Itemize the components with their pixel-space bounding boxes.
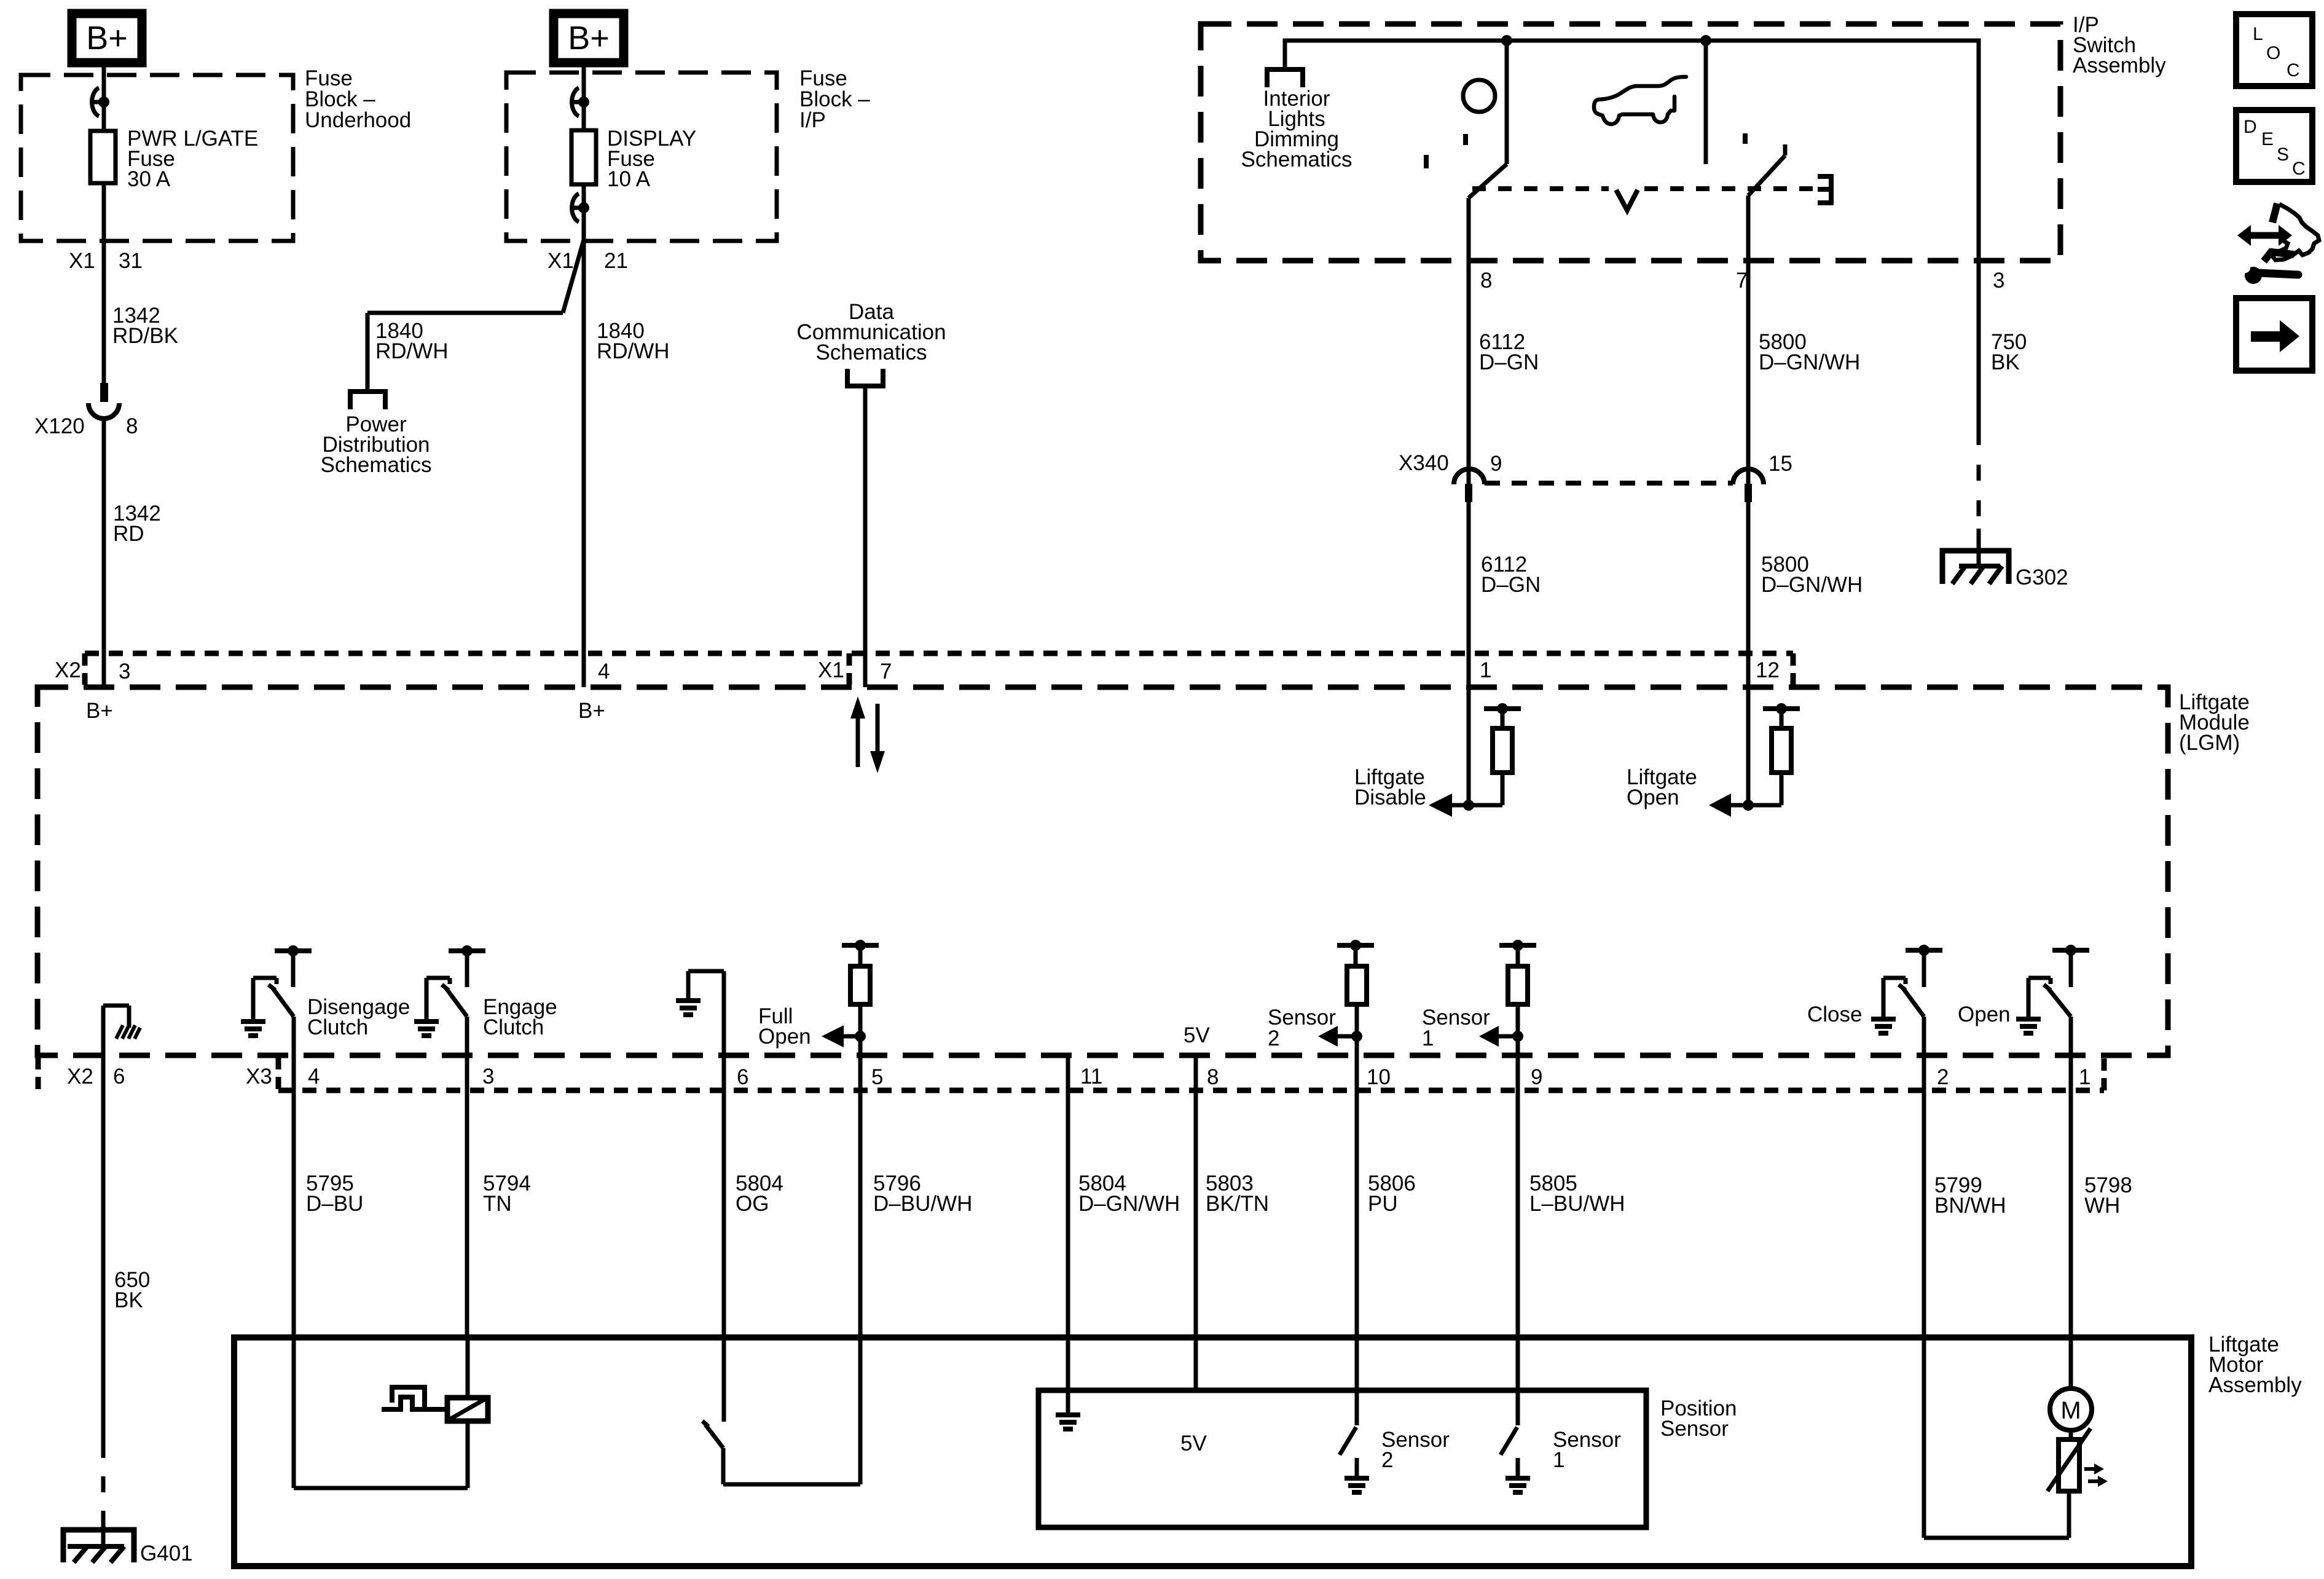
wire label 6112 D-GN (upper) [1479, 330, 1539, 374]
wire serial data to X1 pin 7 [863, 386, 868, 687]
svg-text:10: 10 [1367, 1065, 1391, 1089]
junction dot sensor 2 [1351, 1031, 1362, 1042]
internal rail stub (full open) [842, 940, 879, 966]
pin number 4 (LGM X2) [598, 660, 610, 683]
switch S1 liftgate disable (pin 8) [1469, 41, 1507, 261]
resistor lead full open [858, 1004, 863, 1036]
junction dot sensor 1 [1512, 1031, 1523, 1042]
label connector pin X1 21 [548, 249, 628, 273]
label G401 [140, 1542, 193, 1565]
label Interior Lights Dimming Schematics [1241, 87, 1352, 171]
svg-text:Schematics: Schematics [321, 453, 432, 477]
svg-text:E: E [2261, 129, 2274, 149]
label G302 [2016, 565, 2068, 589]
wire fuse output to X120 pin 8 [102, 183, 106, 383]
switch S2 liftgate open (pin 7) [1706, 41, 1785, 261]
car liftgate icon [1594, 77, 1686, 124]
wire sensor 1 to pin 9 [1516, 1036, 1520, 1055]
wire B+ to DISPLAY fuse [582, 63, 586, 130]
ground symbol (open switch) [2016, 1019, 2041, 1033]
svg-text:9: 9 [1490, 452, 1502, 476]
pin number 4 (X3) [308, 1065, 320, 1089]
svg-text:8: 8 [1207, 1065, 1219, 1089]
svg-text:D–BU: D–BU [306, 1192, 363, 1216]
svg-text:G401: G401 [140, 1542, 193, 1565]
label I/P Switch Assembly [2073, 13, 2166, 77]
svg-text:10 A: 10 A [607, 167, 651, 191]
svg-text:9: 9 [1531, 1065, 1542, 1089]
bus wire inside I/P switch assembly [1285, 41, 1979, 261]
momentary arrow V on link [1616, 190, 1638, 210]
wire 650 BK dashed segment [101, 1476, 106, 1530]
wire DISPLAY fuse to X2 pin 4 [582, 184, 586, 687]
svg-text:(LGM): (LGM) [2179, 731, 2240, 755]
label Sensor 1 (module) [1422, 1006, 1490, 1050]
wire label 1342 RD/BK [112, 304, 178, 348]
svg-text:RD/BK: RD/BK [112, 324, 178, 348]
motor thermal protector (PTC) [2047, 1428, 2108, 1491]
ground G302 [1942, 551, 2009, 584]
svg-text:TN: TN [483, 1192, 512, 1216]
svg-text:8: 8 [126, 414, 138, 438]
svg-text:Schematics: Schematics [1241, 148, 1352, 171]
power symbol B+ (battery feed, underhood) [72, 14, 142, 63]
svg-text:G302: G302 [2016, 565, 2068, 589]
svg-text:PU: PU [1368, 1192, 1398, 1216]
svg-text:I/P: I/P [799, 108, 826, 132]
resistor lead sensor 2 [1355, 1004, 1359, 1036]
button icon (circle) [1463, 80, 1495, 112]
dashed link of connector X340 [1485, 481, 1733, 486]
svg-text:X1: X1 [548, 249, 574, 273]
svg-text:L: L [2253, 24, 2263, 44]
label Liftgate Module (LGM) [2179, 690, 2250, 755]
svg-text:3: 3 [1993, 269, 2004, 293]
svg-text:6: 6 [113, 1065, 125, 1089]
svg-text:D–GN: D–GN [1481, 573, 1541, 597]
fuse clip bottom (DISPLAY fuse) [570, 194, 589, 222]
wire 5804 D-GN/WH [1066, 1055, 1070, 1337]
svg-text:Underhood: Underhood [305, 108, 411, 132]
svg-text:B+: B+ [578, 699, 605, 723]
signal arrow Liftgate Disable [1429, 793, 1469, 817]
resistor disable pull-up [1493, 728, 1512, 773]
svg-text:M: M [2060, 1397, 2081, 1424]
label X2 (top row) [55, 658, 81, 682]
mechanical link dotted line [1472, 186, 1814, 191]
liftgate motor assembly enclosure [234, 1337, 2191, 1566]
fuse F2 DISPLAY 10A element [571, 130, 596, 184]
svg-text:Assembly: Assembly [2208, 1373, 2302, 1397]
off-page pointer from Data Communication Schematics [847, 369, 883, 386]
power symbol B+ (battery feed, I/P) [554, 14, 624, 63]
liftgate module LGM dashed enclosure [37, 687, 2168, 1055]
internal chassis ground (pin X2-6) [103, 1006, 140, 1055]
label Data Communication Schematics [796, 300, 946, 364]
svg-text:5V: 5V [1180, 1431, 1207, 1455]
svg-text:21: 21 [604, 249, 628, 273]
off-page pointer to Interior Lights Dimming Schematics [1267, 69, 1303, 87]
svg-text:5V: 5V [1184, 1023, 1210, 1047]
detent symbol [1818, 176, 1831, 203]
pin number 8 (X3) [1207, 1065, 1219, 1089]
connector X3 end cap dotted [2102, 1058, 2107, 1090]
wire label 6112 D-GN (lower) [1481, 553, 1541, 597]
svg-text:X2: X2 [55, 658, 81, 682]
svg-text:2: 2 [1937, 1065, 1949, 1089]
service icon (wrench) [2240, 252, 2298, 284]
wire sensor 2 to pin 10 [1355, 1036, 1359, 1055]
label X340 [1399, 451, 1449, 475]
label Open (motor) [1958, 1002, 2011, 1026]
wire label 1840 RD/WH (branch) [375, 319, 449, 363]
wire 5794 TN [465, 1055, 469, 1337]
ground symbol (sensor 2) [1345, 1478, 1369, 1492]
ground symbol (position sensor) [1056, 1415, 1080, 1429]
pin number 6 (X3) [737, 1065, 748, 1089]
svg-text:D: D [2244, 117, 2257, 137]
svg-text:B+: B+ [86, 20, 128, 57]
svg-text:X340: X340 [1399, 451, 1449, 475]
wire 5804 OG [722, 1055, 726, 1337]
icon box DESC [2236, 110, 2312, 182]
connector X2 corner dotted [82, 653, 88, 685]
svg-text:RD/WH: RD/WH [597, 339, 670, 363]
position sensor switch 1 [1501, 1337, 1518, 1477]
fuse clip top (PWR L/GATE fuse) [90, 88, 109, 116]
resistor sensor 1 [1508, 966, 1528, 1004]
clutch mechanical symbol [382, 1387, 447, 1409]
svg-text:X1: X1 [69, 249, 95, 273]
svg-text:3: 3 [482, 1065, 494, 1089]
wire motor return loop [1924, 1337, 2069, 1538]
pin number 1 (X3) [2079, 1065, 2090, 1089]
pin number 7 (LGM X1) [880, 660, 892, 683]
signal arrow Sensor 2 [1318, 1026, 1357, 1047]
svg-text:8: 8 [1480, 269, 1492, 293]
icon box LOC [2236, 14, 2312, 86]
label X1 (top row) [818, 658, 844, 682]
wire label 5803 BK/TN [1206, 1171, 1269, 1216]
clutch coil loop [294, 1337, 468, 1488]
wire 5803 BK/TN [1194, 1055, 1198, 1337]
switch close (pin 2) [1883, 945, 1942, 1055]
pin number 10 (X3) [1367, 1065, 1391, 1089]
fuse block - underhood dashed enclosure [21, 75, 293, 241]
switch engage clutch [426, 945, 485, 1055]
node B+ (pin 4) [578, 699, 605, 723]
connector row dotted line X2/X1 [85, 651, 1793, 656]
switch disengage clutch [253, 945, 312, 1055]
svg-text:BK: BK [114, 1288, 143, 1312]
pin number 2 (X3) [1937, 1065, 1949, 1089]
svg-text:Disable: Disable [1354, 786, 1426, 809]
svg-text:Close: Close [1807, 1002, 1862, 1026]
label Sensor 1 (position sensor) [1553, 1428, 1621, 1472]
wire pin 3 to ground G302 (750 BK) [1977, 261, 1981, 430]
wire label 5799 BN/WH [1934, 1173, 2006, 1218]
signal arrow Liftgate Open [1709, 793, 1748, 817]
internal rail stub (disable pull-up) [1484, 703, 1521, 728]
label X3 [246, 1065, 272, 1089]
svg-text:6: 6 [737, 1065, 748, 1089]
svg-text:BK/TN: BK/TN [1206, 1192, 1269, 1216]
svg-text:X3: X3 [246, 1065, 272, 1089]
svg-text:D–GN: D–GN [1479, 350, 1539, 374]
label Sensor 2 (position sensor) [1381, 1428, 1450, 1472]
wire 650 BK from pin 6 [101, 1055, 106, 1458]
connector X1 corner dotted [847, 653, 852, 685]
wire label 1342 RD [113, 502, 161, 546]
svg-text:S: S [2277, 144, 2289, 165]
inline connector X340 pin 9 [1454, 469, 1485, 502]
svg-text:Assembly: Assembly [2073, 53, 2166, 77]
connector row dotted line X3 [278, 1088, 2104, 1093]
label Sensor 2 (module) [1268, 1006, 1336, 1050]
label X2 (bottom row) [67, 1065, 93, 1089]
connector X3 corner dotted [276, 1057, 281, 1090]
wire 6112 lower segment [1467, 468, 1471, 687]
pin number 8 (I/P X1) [1480, 269, 1492, 293]
svg-text:5: 5 [871, 1065, 883, 1089]
fuse block - I/P dashed enclosure [506, 73, 777, 241]
wire 5800 lower segment [1746, 468, 1751, 687]
svg-text:Clutch: Clutch [483, 1015, 544, 1039]
wire liftgate open input [1746, 653, 1751, 805]
wire B+ to fuse PWR L/GATE [102, 63, 106, 131]
label Close [1807, 1002, 1862, 1026]
wire 5795 D-BU [292, 1055, 296, 1337]
svg-text:Clutch: Clutch [307, 1015, 368, 1039]
label Position Sensor [1660, 1396, 1737, 1441]
svg-text:1: 1 [2079, 1065, 2090, 1089]
label 5V (position sensor) [1180, 1431, 1207, 1455]
pin number 15 (X340) [1769, 452, 1792, 476]
svg-text:1: 1 [1553, 1448, 1564, 1472]
svg-text:2: 2 [1268, 1026, 1279, 1050]
service icon (double arrow) [2237, 225, 2292, 246]
wire full open switch feed [858, 1036, 863, 1055]
pin number 3 (I/P X1) [1993, 269, 2004, 293]
motor M1 liftgate [2050, 1337, 2092, 1430]
label Fuse Block - I/P [799, 66, 870, 132]
internal rail stub (open pull-up) [1763, 703, 1800, 728]
label Fuse Block - Underhood [305, 66, 411, 132]
svg-text:12: 12 [1756, 658, 1780, 682]
mechanical link dashes (button to switch 1) [1426, 134, 1466, 168]
svg-text:BK: BK [1991, 350, 2020, 374]
I/P switch assembly dashed enclosure [1201, 24, 2060, 261]
junction dot switch 2 feed [1700, 35, 1711, 46]
mechanical link dash (switch 2) [1743, 133, 1748, 144]
wire label 750 BK [1991, 330, 2027, 374]
wire label 5805 L-BU/WH [1529, 1171, 1625, 1216]
svg-text:O: O [2266, 43, 2280, 63]
junction dot full open [855, 1031, 866, 1042]
wire label 5798 WH [2084, 1173, 2132, 1218]
svg-text:Open: Open [1627, 786, 1679, 809]
internal rail stub (sensor 2) [1337, 940, 1374, 966]
connector X1 end cap dotted [1791, 653, 1796, 685]
switch open (pin 1) [2028, 945, 2089, 1055]
internal ground hook (pin 6 wire 5804) [688, 971, 724, 1055]
wire label 1840 RD/WH (to LGM) [597, 319, 670, 363]
wire 5803 to position sensor 5V [1194, 1337, 1198, 1392]
wire 5805 L-BU/WH [1516, 1055, 1520, 1337]
ground symbol (disengage clutch) [241, 1022, 265, 1036]
label X120 8 [34, 414, 138, 438]
svg-text:RD/WH: RD/WH [375, 339, 449, 363]
fuse clip top (DISPLAY fuse) [570, 88, 589, 116]
junction dot liftgate open [1743, 800, 1754, 811]
label Liftgate Open [1627, 765, 1697, 809]
wire 5800 upper segment [1746, 261, 1751, 468]
position sensor enclosure [1038, 1390, 1646, 1527]
resistor lead sensor 1 [1516, 1004, 1520, 1036]
pin number 5 (X3) [871, 1065, 883, 1089]
resistor lead to junction (open) [1748, 773, 1781, 805]
node B+ (pin 3) [86, 699, 113, 723]
clutch solenoid [447, 1398, 488, 1421]
svg-text:X120: X120 [34, 414, 85, 438]
svg-text:RD: RD [113, 522, 144, 546]
ground symbol (full open return) [676, 1001, 701, 1015]
wire label 5800 D-GN/WH (lower) [1761, 553, 1863, 597]
wire label 5804 OG [736, 1171, 783, 1216]
wire 5806 PU [1355, 1055, 1359, 1337]
icon box arrow (next page) [2236, 298, 2312, 371]
wire 6112 upper segment [1467, 261, 1471, 468]
svg-text:7: 7 [880, 660, 892, 683]
svg-text:BN/WH: BN/WH [1934, 1194, 2006, 1218]
label 5V (module pin 8 rail) [1184, 1023, 1210, 1047]
wire 5796 D-BU/WH [858, 1055, 863, 1337]
svg-text:30 A: 30 A [127, 167, 171, 191]
service icon (outline) [2272, 203, 2319, 260]
wire 5799 BN/WH [1922, 1055, 1926, 1337]
svg-text:D–GN/WH: D–GN/WH [1078, 1192, 1180, 1216]
inline connector X340 pin 15 [1733, 469, 1764, 502]
svg-text:1: 1 [1480, 658, 1491, 682]
pin number 7 (I/P X1) [1736, 269, 1748, 293]
wire X120 to LGM X2 pin 3 [102, 419, 106, 687]
wire label 5794 TN [483, 1171, 531, 1216]
signal arrow Sensor 1 [1479, 1026, 1518, 1047]
resistor open pull-up [1772, 728, 1791, 773]
ground symbol (sensor 1) [1505, 1478, 1530, 1492]
svg-text:B+: B+ [86, 699, 113, 723]
label Liftgate Disable [1354, 765, 1426, 809]
svg-text:4: 4 [598, 660, 610, 683]
connector X2 bottom corner dotted [36, 1057, 41, 1090]
fuse F1 PWR L/GATE 30A element [90, 131, 116, 183]
label Power Distribution Schematics [321, 412, 432, 477]
pin number 6 (LGM X2 bottom) [113, 1065, 125, 1089]
junction dot liftgate disable [1463, 800, 1474, 811]
pin number 9 (X340) [1490, 452, 1502, 476]
svg-text:1: 1 [1422, 1026, 1434, 1050]
wire branch to power distribution [367, 240, 584, 392]
off-page pointer to Power Distribution Schematics [350, 392, 385, 409]
wire 750 BK dashed segment [1977, 429, 1981, 566]
pin number 9 (X3) [1531, 1065, 1542, 1089]
svg-text:Sensor: Sensor [1660, 1417, 1729, 1441]
svg-text:31: 31 [119, 249, 143, 273]
svg-text:X1: X1 [818, 658, 844, 682]
label Full Open [758, 1004, 811, 1049]
svg-text:3: 3 [119, 660, 130, 683]
resistor lead to junction [1469, 773, 1502, 805]
signal arrow Full Open [822, 1025, 860, 1047]
svg-text:15: 15 [1769, 452, 1792, 476]
label connector pin X1 31 [69, 249, 143, 273]
wire label 5804 D-GN/WH [1078, 1171, 1180, 1216]
wire label 5795 D-BU [306, 1171, 363, 1216]
label Disengage Clutch [307, 995, 410, 1039]
svg-text:B+: B+ [568, 20, 610, 57]
junction dot switch 1 feed [1501, 35, 1512, 46]
svg-text:Open: Open [1958, 1002, 2011, 1026]
serial data arrows [850, 696, 885, 773]
internal rail stub (sensor 1) [1499, 940, 1536, 966]
pin number 3 (LGM X2) [119, 660, 130, 683]
wire 5804 to sensor ground [1066, 1337, 1070, 1414]
ground G401 [63, 1530, 134, 1562]
svg-text:4: 4 [308, 1065, 320, 1089]
svg-text:D–GN/WH: D–GN/WH [1761, 573, 1863, 597]
wire 5798 WH [2069, 1055, 2073, 1337]
resistor sensor 2 [1347, 966, 1367, 1004]
label DISPLAY Fuse 10 A [607, 127, 696, 191]
connector X120 inline (pin 8) [88, 383, 119, 419]
svg-text:OG: OG [736, 1192, 769, 1216]
svg-text:D–GN/WH: D–GN/WH [1759, 350, 1860, 374]
resistor full open [850, 966, 870, 1004]
pin number 12 (LGM X1) [1756, 658, 1780, 682]
wire liftgate disable input [1467, 653, 1471, 805]
svg-text:C: C [2292, 159, 2306, 179]
wire label 5806 PU [1368, 1171, 1416, 1216]
ground symbol (engage clutch) [414, 1022, 439, 1036]
position sensor switch 2 [1340, 1337, 1357, 1477]
svg-text:11: 11 [1080, 1065, 1102, 1089]
pin number 1 (LGM X1) [1480, 658, 1491, 682]
label PWR L/GATE Fuse 30 A [127, 127, 258, 191]
svg-text:2: 2 [1381, 1448, 1393, 1472]
pin number 3 (X3) [482, 1065, 494, 1089]
pin number 11 (X3) [1080, 1065, 1102, 1089]
wire label 650 BK [114, 1268, 150, 1312]
svg-text:C: C [2287, 60, 2300, 81]
wire label 5800 D-GN/WH (upper) [1759, 330, 1860, 374]
wire label 5796 D-BU/WH [873, 1171, 972, 1216]
svg-text:D–BU/WH: D–BU/WH [873, 1192, 972, 1216]
label Liftgate Motor Assembly [2208, 1333, 2302, 1397]
ground symbol (close switch) [1871, 1019, 1896, 1033]
full open switch (motor assembly) [702, 1337, 860, 1484]
svg-text:Schematics: Schematics [816, 341, 927, 364]
svg-text:Open: Open [758, 1025, 811, 1049]
svg-text:WH: WH [2084, 1194, 2120, 1218]
svg-text:X2: X2 [67, 1065, 93, 1089]
svg-text:L–BU/WH: L–BU/WH [1529, 1192, 1625, 1216]
label Engage Clutch [483, 995, 557, 1039]
